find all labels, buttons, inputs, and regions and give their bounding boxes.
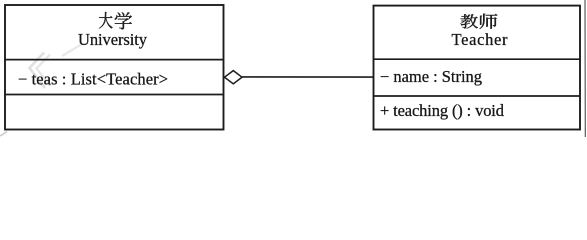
svg-text:University: University	[78, 30, 148, 49]
class name 师 (Teacher)	[480, 14, 498, 29]
svg-text:− name : String: − name : String	[380, 67, 482, 86]
Teacher divider 2	[374, 95, 581, 97]
class name 学 (University)	[115, 12, 132, 29]
page-edge scan line at right	[584, 0, 586, 137]
watermark speck bottom-left image corner	[0, 132, 7, 137]
svg-text:Teacher: Teacher	[452, 30, 509, 49]
aggregation diamond at University end	[225, 71, 243, 84]
watermark diagonal under University header	[62, 44, 82, 56]
class name 大 (University)	[99, 12, 113, 28]
class University box	[5, 5, 224, 130]
Teacher divider 1	[374, 58, 581, 60]
aggregation association wire	[242, 76, 374, 78]
University divider 1	[5, 59, 224, 61]
class name 教 (Teacher)	[460, 14, 477, 28]
University divider 2	[5, 94, 224, 96]
svg-text:+ teaching () : void: + teaching () : void	[380, 101, 505, 120]
svg-text:− teas : List<Teacher>: − teas : List<Teacher>	[18, 69, 168, 88]
class Teacher box	[374, 6, 581, 130]
watermark chevron outline inside University box	[30, 53, 46, 89]
